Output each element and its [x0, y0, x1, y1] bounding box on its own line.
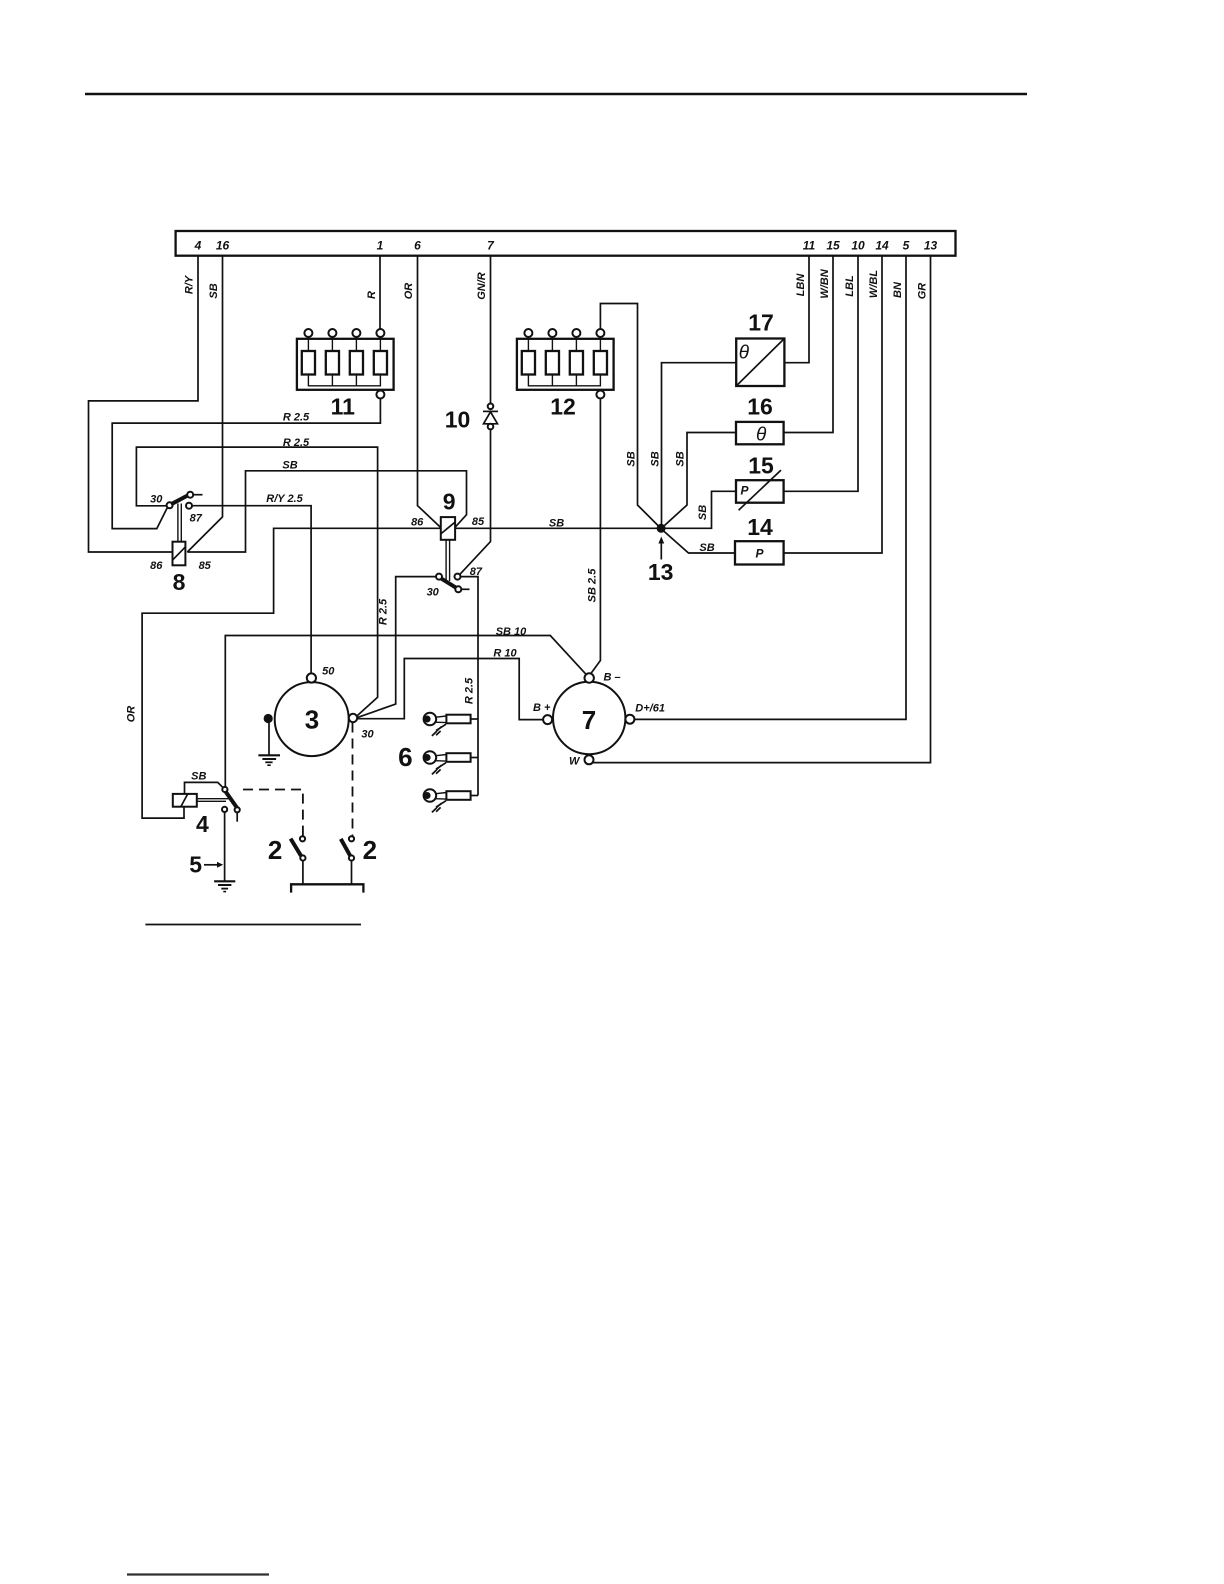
svg-text:14: 14 — [747, 514, 773, 540]
svg-text:R 2.5: R 2.5 — [464, 677, 476, 704]
svg-text:10: 10 — [445, 407, 471, 433]
box 14 (pressure switch) — [735, 514, 784, 565]
svg-text:5: 5 — [189, 851, 202, 877]
svg-text:7: 7 — [487, 239, 495, 253]
switch 2 (left battery switch) — [268, 835, 306, 884]
wire from diode 10 to relay 9 contact 87 — [460, 429, 491, 574]
svg-text:R 2.5: R 2.5 — [377, 598, 389, 625]
svg-text:11: 11 — [331, 394, 356, 420]
wire R/Y 2.5 relay 8 contact 87 to starter 3 terminal 50 — [192, 506, 311, 674]
wire W/BL from pin 14 to box 14 — [784, 256, 882, 553]
svg-text:W: W — [569, 755, 581, 767]
wire relay 9 contact 30 to starter terminal 30 — [357, 577, 436, 718]
wire GN/R from pin 7 to diode 10 — [490, 256, 492, 404]
wire OR relay 9 coil 86 to switch 4 (long SB rail left part) — [142, 528, 441, 818]
box 16 (theta sensor) — [736, 394, 784, 446]
svg-text:SB: SB — [208, 283, 220, 298]
svg-text:4: 4 — [196, 811, 209, 837]
svg-text:B –: B – — [604, 672, 621, 684]
relay 8 — [150, 492, 212, 595]
svg-text:OR: OR — [126, 706, 138, 723]
svg-text:5: 5 — [903, 239, 910, 253]
alternator 7 — [533, 672, 665, 768]
svg-text:30: 30 — [150, 494, 163, 506]
wire R from pin 1 to fuse box 11 — [379, 256, 381, 329]
wire fuse box 12 output to node 13 — [600, 304, 658, 526]
diode 10 — [445, 404, 498, 433]
wire R 2.5 fuse box 11 to relay 8 contact 30 — [112, 399, 380, 529]
svg-text:85: 85 — [472, 516, 485, 528]
switch 2 (right battery switch) — [341, 835, 377, 884]
svg-text:2: 2 — [363, 835, 377, 865]
box 17 (gauge with theta) — [736, 310, 784, 387]
ignition coil 6c — [424, 789, 478, 812]
wire R/Y from pin 4 to relay 8 coil 86 — [89, 256, 199, 552]
wire SB from pin 16 to relay 8 coil 85 — [187, 256, 222, 552]
svg-text:15: 15 — [826, 239, 840, 253]
box 15 (pressure sender with slash) — [736, 453, 784, 511]
dashed link starter 30 to switch 2 — [352, 723, 354, 836]
svg-text:11: 11 — [803, 239, 816, 253]
dashed link switch 4 to switch 2 — [243, 790, 303, 836]
svg-text:LBN: LBN — [795, 273, 807, 297]
svg-text:16: 16 — [747, 394, 773, 420]
wire GR from pin 13 to alternator W — [593, 256, 930, 763]
svg-text:50: 50 — [322, 665, 335, 677]
svg-text:BN: BN — [892, 281, 904, 298]
fuse box 11 — [297, 329, 394, 420]
svg-text:P: P — [741, 484, 750, 498]
wire LBN from pin 11 to box 17 — [784, 256, 809, 363]
svg-text:R/Y 2.5: R/Y 2.5 — [266, 493, 303, 505]
svg-text:D+/61: D+/61 — [635, 703, 665, 715]
svg-text:6: 6 — [414, 239, 421, 253]
starter motor 3 — [264, 665, 375, 756]
svg-text:R: R — [366, 291, 378, 299]
connector strip (terminal bar) — [176, 231, 956, 256]
fuse box 12 — [517, 329, 614, 420]
wire W/BN from pin 15 to box 16 — [784, 256, 833, 433]
svg-text:GR: GR — [917, 283, 929, 300]
svg-text:3: 3 — [305, 705, 319, 735]
bottom rule — [145, 924, 361, 926]
svg-text:10: 10 — [851, 239, 865, 253]
svg-text:OR: OR — [403, 283, 415, 300]
svg-text:SB: SB — [699, 542, 714, 554]
svg-text:SB: SB — [675, 451, 687, 466]
svg-text:θ: θ — [739, 343, 750, 364]
svg-text:6: 6 — [398, 742, 412, 772]
svg-text:13: 13 — [924, 239, 938, 253]
svg-text:GN/R: GN/R — [476, 272, 488, 300]
svg-text:9: 9 — [443, 488, 456, 514]
svg-text:2: 2 — [268, 835, 282, 865]
switch 4 (solenoid operated) — [173, 771, 240, 838]
svg-text:86: 86 — [411, 517, 424, 529]
svg-text:W/BN: W/BN — [819, 268, 831, 298]
svg-text:SB: SB — [625, 451, 637, 466]
svg-text:87: 87 — [190, 513, 203, 525]
page top rule — [85, 93, 1027, 96]
battery terminals bracket — [291, 884, 363, 892]
svg-text:4: 4 — [194, 239, 202, 253]
svg-text:8: 8 — [173, 569, 186, 595]
svg-text:LBL: LBL — [844, 275, 856, 297]
wire box 17 left side to node 13 — [662, 363, 737, 524]
svg-text:30: 30 — [427, 587, 440, 599]
svg-text:14: 14 — [875, 239, 889, 253]
svg-text:7: 7 — [582, 705, 596, 735]
wire relay 9 contact 87 to coil bus (R 2.5) — [461, 577, 479, 796]
wire R 10 starter terminal 30 to alternator B+ — [357, 659, 543, 720]
ignition coil 6b — [424, 751, 478, 774]
svg-text:16: 16 — [216, 239, 230, 253]
footer link line — [127, 1573, 269, 1575]
svg-text:SB 2.5: SB 2.5 — [586, 568, 598, 603]
svg-text:86: 86 — [150, 560, 163, 572]
svg-text:30: 30 — [361, 728, 374, 740]
wire BN from pin 5 to alternator D+/61 — [634, 256, 906, 720]
svg-text:SB: SB — [549, 518, 564, 530]
wire LBL from pin 10 to box 15 — [784, 256, 858, 492]
wire R 2.5 relay 8 contact 30 to starter 3 terminal 30 — [136, 447, 377, 716]
svg-text:SB: SB — [649, 451, 661, 466]
wire box 16 left side to node 13 — [665, 433, 737, 526]
svg-text:1: 1 — [377, 239, 384, 253]
svg-text:W/BL: W/BL — [868, 270, 880, 298]
svg-text:R 2.5: R 2.5 — [283, 437, 310, 449]
svg-text:θ: θ — [756, 425, 767, 446]
svg-text:R 2.5: R 2.5 — [283, 412, 310, 424]
svg-text:15: 15 — [748, 453, 774, 479]
svg-text:SB: SB — [191, 771, 206, 783]
wire SB 2.5 from fuse box 12 to alternator B- — [591, 399, 601, 674]
svg-text:13: 13 — [648, 559, 674, 585]
svg-text:SB 10: SB 10 — [496, 626, 527, 638]
wire SB relay 8 coil 85 to relay 9 coil 85 — [187, 471, 466, 552]
svg-text:12: 12 — [550, 394, 576, 420]
svg-text:P: P — [756, 547, 765, 561]
svg-text:R/Y: R/Y — [184, 274, 196, 294]
wire SB 10 from switch 4 to alternator B- — [225, 636, 585, 787]
svg-text:SB: SB — [697, 505, 709, 520]
svg-text:B +: B + — [533, 702, 551, 714]
ignition coil 6a — [424, 713, 478, 736]
wire box 15 left side to node 13 horizontal — [665, 491, 736, 528]
relay 9 — [411, 488, 485, 598]
svg-text:R 10: R 10 — [493, 647, 517, 659]
wire OR from pin 6 to relay 9 coil 86 — [418, 256, 441, 528]
svg-text:SB: SB — [282, 460, 297, 472]
svg-text:17: 17 — [748, 310, 774, 336]
ground at starter motor — [258, 723, 280, 766]
node 13 (ground junction) — [648, 524, 674, 585]
terminal pin numbers — [194, 239, 938, 253]
svg-text:85: 85 — [199, 560, 212, 572]
wire SB relay 9 coil 85 to node 13 — [455, 527, 661, 529]
wire node 13 to box 14 left side — [664, 531, 735, 553]
ground 5 — [189, 812, 235, 892]
